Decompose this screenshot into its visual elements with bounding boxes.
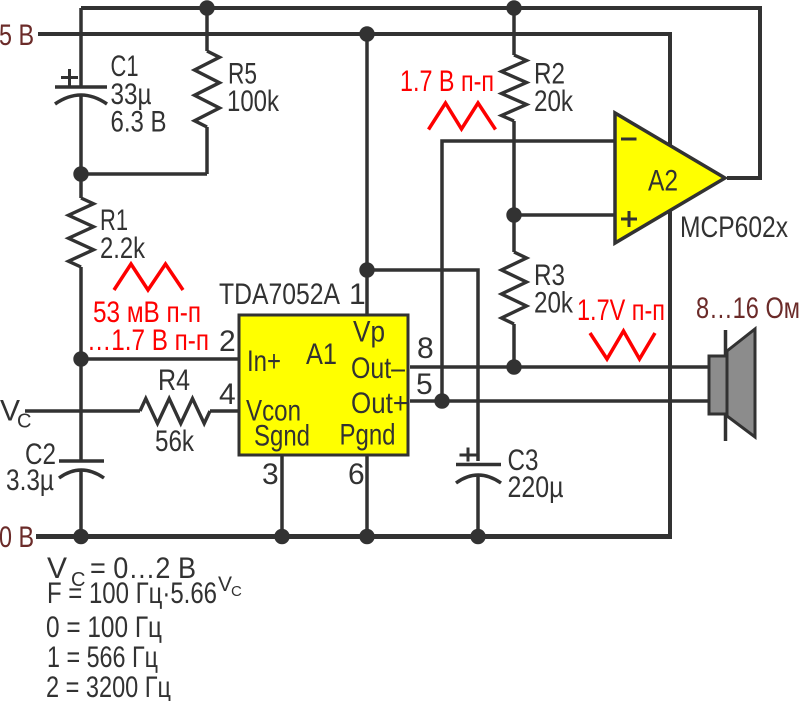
svg-text:0 = 100 Гц: 0 = 100 Гц — [46, 611, 162, 644]
junction: C2 on 0V rail — [73, 529, 88, 544]
waveform: red triangle wave at R3 (inverted) — [590, 331, 655, 359]
svg-text:F = 100 Гц·5.66: F = 100 Гц·5.66 — [47, 577, 217, 610]
svg-text:4: 4 — [219, 378, 236, 411]
svg-text:5: 5 — [416, 368, 433, 401]
svg-text:2 = 3200 Гц: 2 = 3200 Гц — [46, 671, 171, 701]
wire: node OUT of op-amp A2, top horizontal line with right-side feedback drop — [81, 8, 760, 178]
junction: C1/R5/R1 node — [73, 166, 88, 181]
wire: R5 bottom to C1 bottom node — [81, 172, 207, 176]
svg-text:3: 3 — [262, 458, 279, 491]
svg-text:MCP602x: MCP602x — [680, 211, 788, 244]
note: VC = 0…2 В — [47, 552, 196, 591]
svg-text:Vp: Vp — [353, 316, 385, 349]
svg-text:20k: 20k — [534, 287, 574, 320]
wire: Out- pin 8 to speaker — [410, 365, 709, 369]
svg-text:Out–: Out– — [351, 352, 405, 385]
wire: VC input to R4 — [25, 409, 140, 413]
capacitor C2 — [6, 359, 104, 537]
wire: op-amp non-inverting input to R2/R3 node — [514, 213, 615, 217]
wire: 5V rail (line with 5 В label), right vertical and bottom 0V rail loop — [38, 34, 670, 537]
wire: R4 to pin 4 Vcon — [210, 409, 240, 413]
junction: R5 top on output line — [199, 0, 214, 15]
svg-text:220µ: 220µ — [508, 471, 564, 504]
note: F = 100 Гц·5.66^VC — [47, 573, 242, 610]
junction: Out- / R3 bottom — [506, 359, 521, 374]
wire: Vp branch to C3 — [367, 270, 478, 461]
svg-text:C: C — [231, 583, 242, 600]
wire: from top line down to C1 top plate — [79, 8, 83, 86]
capacitor C3 — [456, 444, 564, 537]
wire: C1 bottom to node at y=174 — [79, 96, 83, 174]
svg-text:100k: 100k — [227, 85, 280, 118]
svg-text:56k: 56k — [155, 425, 195, 458]
resistor R5 — [195, 8, 280, 174]
svg-text:1.7V п-п: 1.7V п-п — [577, 294, 665, 327]
resistor R2 — [502, 8, 574, 215]
junction: Out+ / inverting input — [434, 393, 449, 408]
svg-text:V: V — [218, 573, 232, 596]
junction: C3 on 0V rail — [470, 529, 485, 544]
svg-text:In+: In+ — [247, 345, 281, 378]
svg-text:Out+: Out+ — [351, 387, 408, 420]
svg-text:2: 2 — [219, 325, 236, 358]
svg-text:5 В: 5 В — [0, 19, 34, 52]
svg-text:C: C — [17, 411, 31, 433]
svg-text:Pgnd: Pgnd — [340, 419, 396, 452]
junction: Sgnd on 0V rail — [274, 529, 289, 544]
svg-text:3.3µ: 3.3µ — [6, 464, 54, 497]
junction: Pgnd on 0V rail — [359, 529, 374, 544]
wire: Pgnd pin 6 to 0V — [365, 454, 369, 537]
svg-text:1: 1 — [349, 278, 366, 311]
svg-text:…1.7 В п-п: …1.7 В п-п — [87, 324, 209, 357]
waveform: red triangle wave at R2 — [429, 103, 496, 130]
junction: R1/C2/In+ node — [73, 351, 88, 366]
waveform: red triangle wave at R1 — [114, 264, 183, 290]
op-amp A2 — [615, 113, 725, 243]
svg-text:6: 6 — [348, 458, 365, 491]
junction: R2 top on output line — [506, 0, 521, 15]
svg-text:8…16 Ом: 8…16 Ом — [696, 292, 800, 325]
svg-text:A1: A1 — [306, 338, 337, 371]
resistor R1 — [69, 174, 146, 359]
svg-text:1 = 566 Гц: 1 = 566 Гц — [47, 641, 158, 674]
speaker LS1 8…16 Ом — [696, 292, 800, 441]
wire: 0V bottom rail — [36, 534, 672, 539]
svg-text:1.7 В п-п: 1.7 В п-п — [400, 65, 494, 98]
wire: pin 1 Vp to 5V rail — [365, 34, 369, 315]
junction: Vp/C3 branch — [359, 262, 374, 277]
resistor R4 — [140, 364, 210, 458]
svg-text:Sgnd: Sgnd — [254, 420, 310, 453]
junction: Vp on 5V rail — [359, 26, 374, 41]
svg-text:A2: A2 — [648, 165, 678, 198]
wire: op-amp inverting input to Out+ — [442, 141, 615, 401]
junction: R2/R3/op-amp + node — [506, 207, 521, 222]
svg-text:TDA7052A: TDA7052A — [219, 278, 340, 311]
wire: Sgnd pin 3 to 0V — [280, 454, 284, 537]
svg-text:0 В: 0 В — [0, 521, 34, 554]
svg-text:8: 8 — [417, 332, 434, 365]
wire: In+ node to pin 2 of A1 — [81, 357, 240, 361]
svg-text:20k: 20k — [534, 85, 574, 118]
svg-text:2.2k: 2.2k — [100, 232, 146, 265]
wire: Out+ pin 5 to speaker — [410, 399, 709, 403]
resistor R3 — [502, 215, 574, 368]
svg-text:6.3 В: 6.3 В — [111, 106, 167, 139]
IC A1 TDA7052A yellow box — [219, 278, 408, 455]
capacitor C1 — [55, 50, 167, 139]
svg-text:R4: R4 — [158, 364, 190, 397]
